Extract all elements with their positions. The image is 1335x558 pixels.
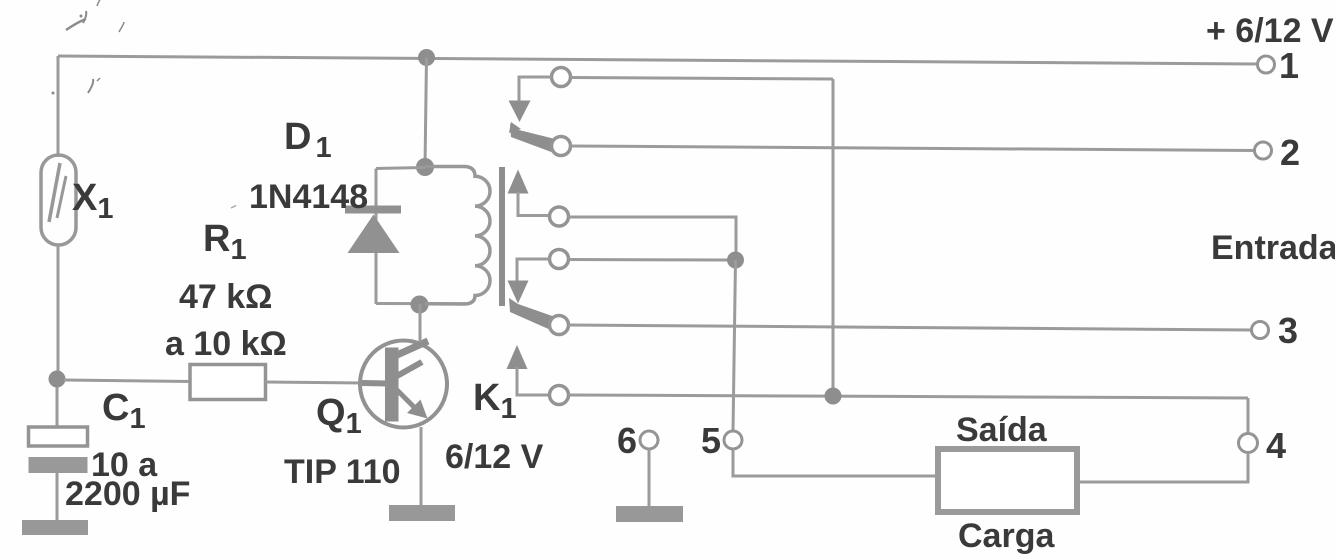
sensor X1	[41, 155, 76, 245]
contact arm 2	[509, 298, 558, 331]
wire circle A to corner	[571, 78, 834, 80]
arrow up contact K1	[507, 345, 528, 369]
node junction relay top	[416, 158, 434, 176]
svg-text:6/12 V: 6/12 V	[445, 438, 544, 476]
wire relay bottom horizontal	[376, 302, 466, 305]
terminal 2	[1255, 142, 1272, 159]
contact moving circle B (terminal 2)	[552, 137, 571, 156]
ground under terminal 6	[616, 506, 683, 522]
wire circle F to terminal 4 corner	[569, 395, 1249, 398]
svg-text:4: 4	[1266, 425, 1286, 466]
relay coil K1	[425, 167, 490, 305]
wire circle A left and down	[519, 77, 552, 102]
terminal 4	[1239, 434, 1258, 453]
wire terminal 5 down to load	[733, 449, 937, 476]
svg-text:2200 µF: 2200 µF	[65, 475, 190, 513]
node junction on rail	[418, 49, 435, 66]
contact circle E (terminal 3)	[550, 316, 569, 335]
wire rail to relay top	[425, 58, 427, 168]
wire relay top to diode	[376, 168, 425, 169]
wire circle C to corner	[569, 217, 737, 253]
wire Q1 emitter to ground	[420, 427, 423, 507]
wire junction 5 branch vertical	[733, 260, 736, 431]
wire arrow 2 stem	[518, 192, 550, 216]
terminal 1	[1258, 56, 1275, 73]
svg-text:TIP 110: TIP 110	[284, 453, 401, 491]
wire base from node to R1	[64, 380, 191, 382]
scan smudges top left	[52, 0, 237, 208]
contact fixed circle A (to terminal 1 branch)	[552, 68, 571, 87]
svg-text:1N4148: 1N4148	[249, 178, 368, 216]
wire terminal 4 down to load	[1079, 453, 1248, 483]
svg-text:2: 2	[1280, 132, 1300, 173]
svg-text:47 kΩ: 47 kΩ	[179, 278, 272, 316]
node junction 5 branch	[727, 252, 744, 269]
arrow up contact 2	[508, 170, 529, 194]
diode D1	[345, 206, 401, 254]
node junction at C1/R1	[49, 371, 66, 388]
relay core bar	[499, 167, 505, 306]
wire corner down to terminal 4	[1247, 398, 1250, 434]
terminal 3	[1252, 322, 1269, 339]
terminal 6	[640, 431, 658, 449]
ground under Q1	[389, 505, 455, 521]
ground under C1	[22, 520, 88, 535]
node junction collector	[411, 296, 429, 314]
svg-text:5: 5	[701, 420, 721, 461]
svg-text:6: 6	[617, 420, 637, 461]
wire collector	[419, 304, 422, 342]
resistor R1	[190, 365, 266, 400]
contact circle D	[550, 250, 569, 269]
arrow down contact 1	[509, 101, 531, 123]
svg-text:3: 3	[1278, 310, 1298, 351]
svg-text:1: 1	[1279, 45, 1299, 86]
node junction on K1 line	[825, 388, 842, 405]
capacitor C1	[29, 387, 88, 521]
svg-text:Carga: Carga	[958, 517, 1055, 555]
wire circle D left and down	[517, 259, 550, 282]
wire arrow K1 stem	[517, 367, 550, 395]
svg-text:a 10 kΩ: a 10 kΩ	[165, 325, 287, 363]
wire circle B to terminal 2	[571, 146, 1255, 151]
contact circle F (common)	[550, 386, 569, 405]
wire diode branch vertical	[375, 169, 378, 305]
svg-text:Entrada: Entrada	[1211, 229, 1335, 267]
wire corner down to K1 line	[832, 79, 835, 396]
wire R1 to Q1 base	[266, 382, 364, 383]
wire circle D to junction	[569, 258, 731, 262]
arrow down contact 3	[508, 281, 529, 304]
contact circle C	[550, 207, 569, 226]
wire terminal 6 to ground	[648, 449, 651, 507]
terminal 5	[724, 431, 742, 449]
svg-text:Saída: Saída	[956, 411, 1048, 449]
wire top supply rail	[58, 56, 1257, 64]
contact arm 1	[509, 122, 559, 153]
wire left vertical upper	[57, 56, 60, 157]
svg-text:+ 6/12 V: + 6/12 V	[1206, 12, 1334, 50]
transistor Q1	[360, 341, 447, 428]
load box Carga	[938, 449, 1077, 512]
wire left vertical lower	[57, 244, 60, 379]
wire circle E to terminal 3	[569, 325, 1252, 330]
